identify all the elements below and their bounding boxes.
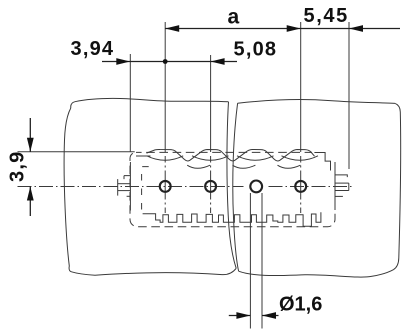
dimension line dia 1,6 right tail xyxy=(262,315,279,317)
connector solid right edge xyxy=(334,162,336,210)
hole 3 xyxy=(250,181,262,193)
arrow dia1,6 left xyxy=(236,312,250,319)
arrow 3,9 up xyxy=(27,187,34,201)
dimension line 3,9 upper tail xyxy=(29,118,31,152)
arrow 3,9 down xyxy=(27,138,34,152)
dimension line 3,9 lower tail xyxy=(29,187,31,217)
hole 1 xyxy=(160,181,171,192)
hole2 vertical centerline xyxy=(210,156,212,213)
extension line 3,94 left xyxy=(129,54,131,152)
svg-text:3,9: 3,9 xyxy=(7,151,29,182)
left latch xyxy=(124,176,130,180)
hole1 vertical centerline xyxy=(164,156,166,213)
extension line hole2 top xyxy=(210,55,212,152)
dimension line a / 5,45 xyxy=(165,28,400,30)
right latch xyxy=(335,175,347,177)
extension line 3,9 top xyxy=(18,151,135,153)
arrow 5,45 right xyxy=(349,25,363,32)
connector top arcs row xyxy=(147,156,184,161)
left PCB panel outline xyxy=(71,98,229,108)
svg-text:Ø1,6: Ø1,6 xyxy=(279,294,322,316)
svg-text:5,45: 5,45 xyxy=(304,5,349,27)
arrow dia1,6 right xyxy=(262,312,276,319)
dot hole1 dimension point xyxy=(163,59,168,64)
extension line hole1 top xyxy=(164,22,166,152)
svg-text:3,94: 3,94 xyxy=(71,38,115,60)
connector dashed outline xyxy=(136,151,312,153)
right PCB panel outline xyxy=(233,103,239,271)
hole4 vertical centerline xyxy=(300,156,302,213)
arrow a right / 5,45 left xyxy=(287,25,301,32)
connector right inner step xyxy=(314,153,330,171)
connector top break wave line xyxy=(147,149,315,160)
extension line hole3 right tangent xyxy=(261,193,263,329)
hole 4 xyxy=(295,181,306,192)
connector left inner step xyxy=(136,155,151,157)
dimension line 3,94 / 5,08 xyxy=(102,61,237,63)
extension line 5,45 right xyxy=(348,22,350,169)
arrow 3,94 xyxy=(116,58,130,65)
svg-text:5,08: 5,08 xyxy=(234,39,278,61)
hole 2 xyxy=(205,181,216,192)
horizontal centerline xyxy=(18,186,244,188)
extension line hole4 top xyxy=(300,22,302,152)
svg-text:a: a xyxy=(228,6,240,29)
dimension line dia 1,6 left tail xyxy=(229,315,251,317)
arrow a left xyxy=(165,25,179,32)
extension line hole3 left tangent xyxy=(249,193,251,329)
connector solid left edge xyxy=(129,162,131,211)
arrow 5,08 xyxy=(211,58,225,65)
connector bottom castellation xyxy=(143,212,321,226)
